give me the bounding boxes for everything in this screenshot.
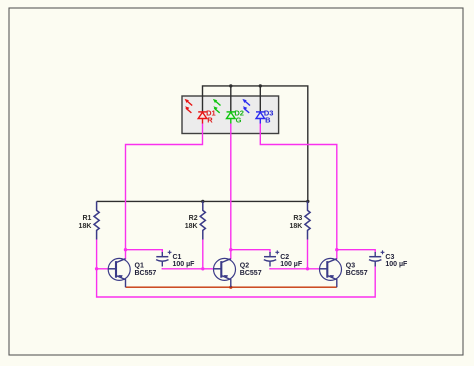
svg-text:R3: R3 [293, 215, 302, 222]
svg-text:C2: C2 [280, 254, 289, 261]
svg-text:18K: 18K [289, 223, 302, 230]
svg-text:Q3: Q3 [346, 262, 355, 269]
svg-text:B: B [265, 116, 271, 125]
wire: R1 bottom / Q1 base / feedback rail from C3 [97, 240, 376, 298]
svg-text:Q1: Q1 [135, 262, 144, 269]
wire: base-resistor rail (black) [97, 200, 308, 202]
wire: Q1 base stub [97, 268, 109, 270]
wire: Q1 collector to C1 top [126, 250, 163, 253]
resistor R3 18K [305, 201, 310, 239]
svg-text:R2: R2 [189, 215, 198, 222]
junction dots (magenta) [95, 267, 98, 270]
svg-text:Q2: Q2 [240, 262, 249, 269]
svg-text:R1: R1 [82, 215, 91, 222]
LED module box [182, 96, 279, 134]
svg-text:R: R [207, 116, 213, 125]
svg-text:100 µF: 100 µF [173, 261, 196, 268]
junction dot Q2 emitter [229, 286, 232, 289]
wire: LED cathode rail (black) [203, 86, 308, 201]
svg-text:18K: 18K [185, 223, 198, 230]
resistor R1 18K [94, 201, 99, 239]
transistor Q3 BC557 PNP [320, 258, 342, 287]
wire: C1 bottom to Q2 base [162, 267, 213, 270]
svg-text:100 µF: 100 µF [280, 261, 303, 268]
wire: D2 cathode drop [230, 86, 232, 112]
wire: Q3 collector to C3 top [337, 250, 375, 253]
wire: C2 bottom to Q3 base [270, 267, 320, 270]
svg-text:BC557: BC557 [346, 270, 368, 277]
junction dots on black rails [229, 84, 232, 87]
transistor Q2 BC557 PNP [214, 258, 236, 287]
svg-text:18K: 18K [79, 223, 92, 230]
capacitor C3 100 uF polarized [369, 250, 384, 266]
wire: Q2 collector to C2 top [231, 250, 270, 253]
svg-text:C3: C3 [385, 254, 394, 261]
wire: R3 bottom to Q3 base node [307, 240, 309, 269]
LED D1 (R) [185, 99, 207, 124]
wire: D3 anode to Q3 collector [260, 123, 337, 259]
wire: D2 anode to Q2 collector [230, 123, 232, 259]
wire: D3 cathode drop [259, 86, 261, 112]
capacitor C2 100 uF polarized [264, 250, 279, 266]
transistor Q1 BC557 PNP [108, 258, 130, 287]
svg-text:BC557: BC557 [135, 270, 157, 277]
svg-text:C1: C1 [173, 254, 182, 261]
svg-text:100 µF: 100 µF [385, 261, 408, 268]
svg-text:BC557: BC557 [240, 270, 262, 277]
wire: D1 anode to Q1 collector [126, 123, 203, 259]
svg-text:G: G [236, 116, 242, 125]
capacitor C1 100 uF polarized [156, 250, 171, 266]
wire: emitter supply rail (red) [126, 286, 337, 288]
wire: R2 bottom to Q2 base node [202, 240, 204, 269]
LED D3 (B) [242, 99, 264, 124]
resistor R2 18K [200, 201, 205, 239]
LED D2 (G) [213, 99, 235, 124]
